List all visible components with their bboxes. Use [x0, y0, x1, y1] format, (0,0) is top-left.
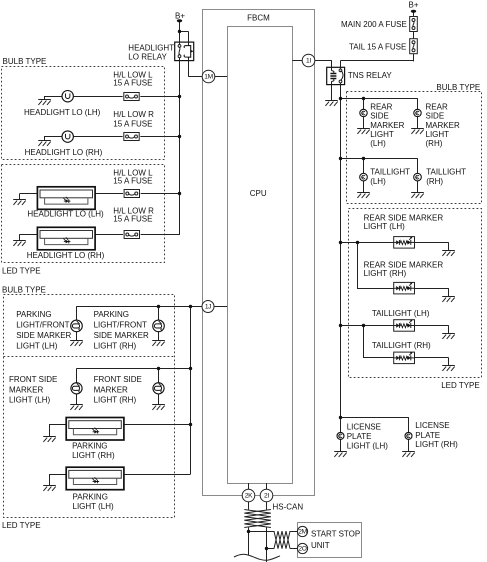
svg-text:TAILLIGHT: TAILLIGHT [426, 168, 466, 177]
svg-text:15 A FUSE: 15 A FUSE [113, 120, 152, 129]
svg-text:HEADLIGHT: HEADLIGHT [128, 43, 174, 52]
svg-text:HEADLIGHT LO (RH): HEADLIGHT LO (RH) [25, 148, 103, 157]
svg-text:PARKING: PARKING [94, 310, 129, 319]
svg-text:(LH): (LH) [370, 177, 386, 186]
svg-text:MARKER: MARKER [370, 121, 404, 130]
svg-text:PLATE: PLATE [415, 431, 440, 440]
svg-text:BULB TYPE: BULB TYPE [3, 57, 47, 66]
svg-text:BULB TYPE: BULB TYPE [2, 285, 46, 294]
svg-text:LIGHT (RH): LIGHT (RH) [415, 440, 458, 449]
svg-text:LICENSE: LICENSE [347, 422, 381, 431]
svg-text:LO RELAY: LO RELAY [128, 53, 167, 62]
svg-text:TAILLIGHT (LH): TAILLIGHT (LH) [372, 309, 430, 318]
svg-text:1J: 1J [205, 304, 211, 311]
svg-text:LIGHT (RH): LIGHT (RH) [94, 341, 137, 350]
svg-text:LIGHT (LH): LIGHT (LH) [364, 222, 406, 231]
svg-text:(RH): (RH) [426, 139, 443, 148]
svg-text:LIGHT (LH): LIGHT (LH) [73, 502, 115, 511]
svg-text:LIGHT (RH): LIGHT (RH) [94, 396, 137, 405]
svg-text:TAILLIGHT: TAILLIGHT [370, 168, 410, 177]
svg-text:LIGHT (RH): LIGHT (RH) [364, 269, 407, 278]
svg-text:B+: B+ [408, 0, 418, 9]
svg-text:(RH): (RH) [426, 177, 443, 186]
svg-text:LIGHT (LH): LIGHT (LH) [9, 396, 51, 405]
svg-text:(LH): (LH) [370, 139, 386, 148]
svg-text:B+: B+ [175, 12, 185, 21]
svg-text:TAIL 15 A FUSE: TAIL 15 A FUSE [349, 42, 406, 51]
svg-text:LICENSE: LICENSE [415, 421, 449, 430]
svg-text:SIDE: SIDE [426, 112, 445, 121]
svg-text:LIGHT (RH): LIGHT (RH) [72, 451, 115, 460]
svg-text:2K: 2K [245, 493, 253, 500]
svg-text:MAIN 200 A FUSE: MAIN 200 A FUSE [341, 20, 407, 29]
svg-text:15 A FUSE: 15 A FUSE [113, 215, 152, 224]
svg-text:2M: 2M [298, 529, 307, 536]
svg-text:MARKER: MARKER [426, 121, 460, 130]
svg-text:START STOP: START STOP [311, 530, 360, 539]
svg-text:LIGHT (LH): LIGHT (LH) [16, 341, 58, 350]
svg-text:HEADLIGHT LO (LH): HEADLIGHT LO (LH) [24, 108, 101, 117]
svg-text:2O: 2O [298, 546, 306, 553]
svg-text:LED TYPE: LED TYPE [2, 267, 41, 276]
svg-text:15 A FUSE: 15 A FUSE [113, 79, 152, 88]
svg-text:LIGHT/FRONT: LIGHT/FRONT [94, 321, 147, 330]
svg-text:HEADLIGHT LO (LH): HEADLIGHT LO (LH) [27, 210, 104, 219]
svg-text:H/L LOW R: H/L LOW R [113, 110, 154, 119]
svg-text:REAR: REAR [370, 103, 392, 112]
svg-text:PARKING: PARKING [72, 441, 107, 450]
svg-text:SIDE: SIDE [370, 112, 389, 121]
svg-text:15 A FUSE: 15 A FUSE [113, 176, 152, 185]
svg-text:CPU: CPU [250, 189, 267, 198]
svg-text:1I: 1I [306, 58, 311, 65]
svg-text:SIDE MARKER: SIDE MARKER [94, 331, 149, 340]
svg-text:HS-CAN: HS-CAN [273, 502, 304, 511]
svg-text:PARKING: PARKING [16, 310, 51, 319]
svg-text:MARKER: MARKER [9, 386, 43, 395]
svg-text:BULB TYPE: BULB TYPE [436, 83, 480, 92]
svg-text:TNS RELAY: TNS RELAY [348, 71, 393, 80]
svg-text:LIGHT (LH): LIGHT (LH) [347, 441, 389, 450]
svg-text:TAILLIGHT (RH): TAILLIGHT (RH) [372, 341, 431, 350]
svg-text:LIGHT: LIGHT [370, 130, 394, 139]
svg-text:SIDE MARKER: SIDE MARKER [16, 331, 71, 340]
svg-text:HEADLIGHT LO (RH): HEADLIGHT LO (RH) [27, 251, 105, 260]
svg-text:REAR: REAR [426, 103, 448, 112]
svg-text:LED TYPE: LED TYPE [2, 521, 41, 530]
svg-text:FBCM: FBCM [247, 13, 270, 22]
svg-text:PLATE: PLATE [347, 432, 372, 441]
svg-text:UNIT: UNIT [311, 541, 330, 550]
svg-text:1M: 1M [204, 74, 213, 81]
svg-text:LIGHT: LIGHT [426, 130, 450, 139]
svg-text:2I: 2I [264, 493, 269, 500]
svg-text:FRONT SIDE: FRONT SIDE [9, 375, 57, 384]
svg-text:LED TYPE: LED TYPE [441, 381, 480, 390]
svg-text:MARKER: MARKER [94, 386, 128, 395]
svg-text:LIGHT/FRONT: LIGHT/FRONT [16, 321, 69, 330]
svg-text:FRONT SIDE: FRONT SIDE [94, 375, 142, 384]
svg-text:PARKING: PARKING [73, 493, 108, 502]
